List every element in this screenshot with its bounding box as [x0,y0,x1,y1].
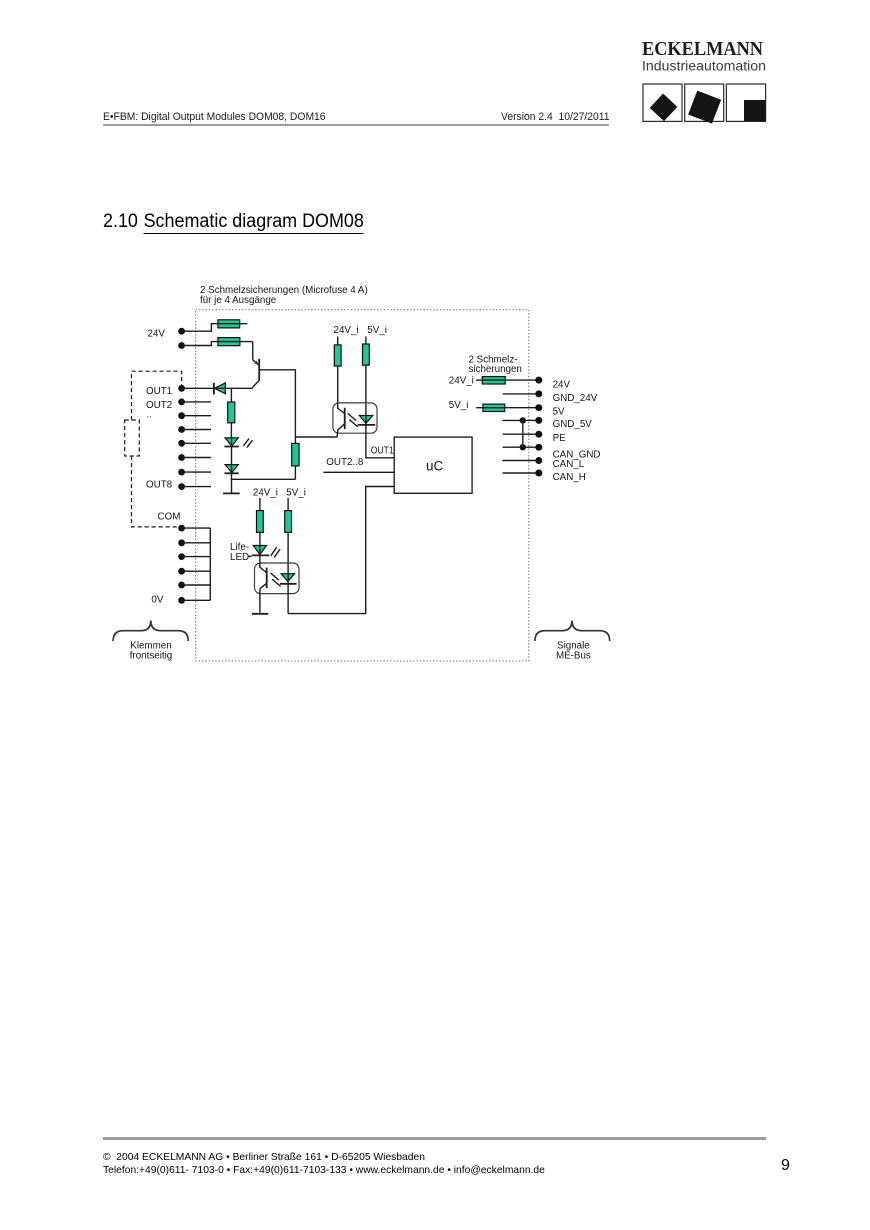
dashed load loop COM [132,456,182,527]
wire GND_5V [503,419,539,421]
svg-text:CAN_L: CAN_L [553,459,585,470]
svg-text:Klemmen: Klemmen [130,640,171,651]
LED2 (output indicator) [225,465,239,474]
wire 24V a to fuse F1 [182,324,218,332]
svg-text:OUT1: OUT1 [371,446,394,457]
svg-text:frontseitig: frontseitig [130,651,172,662]
wire stub fuse FD [287,498,289,511]
dashed load box [125,420,140,456]
wire node to resistor R1 [230,388,232,402]
header left text [103,111,326,123]
logo square 1 (rotated 42deg) [650,93,678,121]
logo box 2 [685,84,724,121]
label Signale ME-Bus [556,640,591,661]
wire U2 emitter to bar [259,594,261,613]
svg-text:Signale: Signale [557,640,590,651]
wire U1 LED out to uC OUT1 [366,425,394,458]
svg-text:GND_5V: GND_5V [553,419,593,430]
terminal dot 24V a [178,328,185,335]
wire CAN_H [503,472,539,474]
transistor Q1 (PNP) [253,359,260,389]
COM terminal dots with comb bus [178,525,210,604]
label Life-LED [230,542,252,563]
wire uC life signal [288,487,394,614]
terminal dot OUT1 [178,385,185,392]
pin dot 5V [535,404,542,411]
logo block [0,0,870,140]
footer text [103,1151,545,1177]
wire U2 LED out [287,584,289,614]
Life-LED [252,546,269,556]
fuse FD 5V_i [285,511,292,533]
wire PE [503,433,539,435]
wire 24V b to fuse F2 [182,342,218,346]
wire LED2 to base node [232,473,296,479]
svg-text:0V: 0V [151,595,163,606]
junction dot GND_5V [520,417,526,423]
resistor R1 [228,402,235,423]
LED1 light arrows [243,439,252,448]
svg-text:uC: uC [426,459,444,474]
wire R2 bottom [294,466,296,479]
wire R1 to LED1 [230,423,232,438]
svg-text:24V_i: 24V_i [449,376,474,387]
svg-text:für je 4 Ausgänge: für je 4 Ausgänge [200,295,277,306]
fuse FF 5V_i [483,404,539,411]
wire OUT1 to diode [182,387,214,389]
svg-text:ME-Bus: ME-Bus [556,651,591,662]
header rule [103,124,609,126]
pin dot GND_5V [535,417,542,424]
svg-text:24V_i: 24V_i [253,488,278,499]
pin dot PE [535,431,542,438]
junction link wire [522,420,524,447]
wire CAN_GND [503,446,539,448]
LED1 (output indicator) [225,438,239,447]
wire opto U1 emitter branch [295,436,337,438]
fuse FA 24V_i [334,345,341,366]
wire FD to opto U2 LED [287,532,289,573]
wire stub fuse FC [259,498,261,511]
svg-text:OUT2..8: OUT2..8 [326,457,364,468]
wire stub fuse FB [365,337,367,345]
logo square 3 (corner) [744,100,766,121]
wire stub fuse FA [337,337,339,345]
termination bar A [223,492,240,494]
svg-text:OUT1: OUT1 [146,386,172,397]
wire emitter feed [252,342,254,360]
header right text [501,111,609,123]
pin dot CAN_GND [535,444,542,451]
wire Q1 base [260,370,296,444]
wire OUT2..8 bus [323,471,394,473]
wire GND_24V [503,393,539,395]
footer rule [103,1137,766,1140]
wire FA to opto U1 [337,366,339,403]
svg-text:LED: LED [230,552,249,563]
wire FB to opto LED [365,365,367,416]
label Klemmen frontseitig [130,640,172,661]
fuse FE 24V_i [482,377,539,384]
svg-text:2 Schmelzsicherungen (Microfus: 2 Schmelzsicherungen (Microfuse 4 A) [200,285,368,296]
logo box 1 [643,84,682,121]
svg-text:5V_i: 5V_i [367,325,387,336]
terminal dot 24V b [178,342,185,349]
schematic outer dotted frame [196,310,529,661]
section heading [103,211,364,233]
logo square 2 (rotated 20deg) [688,91,721,124]
svg-text:24V_i: 24V_i [334,325,359,336]
lead dash 24V_i [476,379,482,381]
svg-text:5V_i: 5V_i [286,488,306,499]
microcontroller uC [394,437,472,493]
svg-text:sicherungen: sicherungen [469,364,522,375]
wire LED1 to LED2 [231,447,233,465]
fuse F1 (Microfuse 4 A) [218,320,247,328]
optocoupler U1 [333,403,377,437]
logo box 3 [726,84,765,121]
wire CAN_L [503,460,539,462]
svg-text:24V: 24V [553,379,571,390]
wire Life-LED to opto U2 [259,555,261,563]
svg-text:24V: 24V [148,328,166,339]
pin dot GND_24V [535,390,542,397]
brace Klemmen [113,621,188,642]
pin dot CAN_L [535,457,542,464]
svg-text:PE: PE [553,433,567,444]
svg-text:CAN_H: CAN_H [553,472,586,483]
fuse FB 5V_i [363,344,370,365]
svg-text:OUT8: OUT8 [146,479,173,490]
wire stub down [231,479,233,492]
wire FC to Life-LED [259,532,261,545]
Life-LED light arrows [271,547,280,557]
svg-text:COM: COM [158,511,181,522]
resistor R2 [292,443,299,466]
fuse FC 24V_i [257,511,264,533]
diode D1 [214,383,226,395]
wire diode to Q1 collector [225,387,252,389]
svg-text:..: .. [147,410,152,421]
svg-text:Life-: Life- [230,542,249,553]
fuse F2 (Microfuse 4 A) [218,338,253,346]
brace Signale [535,621,610,642]
termination bar B [252,613,268,615]
page number [781,1157,790,1175]
junction dot CAN_GND [520,444,526,450]
pin dot 24V [535,377,542,384]
terminal dots OUT2..OUT8 with stubs [178,399,211,491]
optocoupler U2 [255,563,300,594]
svg-text:5V_i: 5V_i [449,400,469,411]
svg-text:GND_24V: GND_24V [553,393,598,404]
lead dash 5V_i [476,407,483,409]
pin dot CAN_H [535,470,542,477]
dashed load loop OUT1 [132,371,182,420]
svg-text:5V: 5V [553,406,565,417]
